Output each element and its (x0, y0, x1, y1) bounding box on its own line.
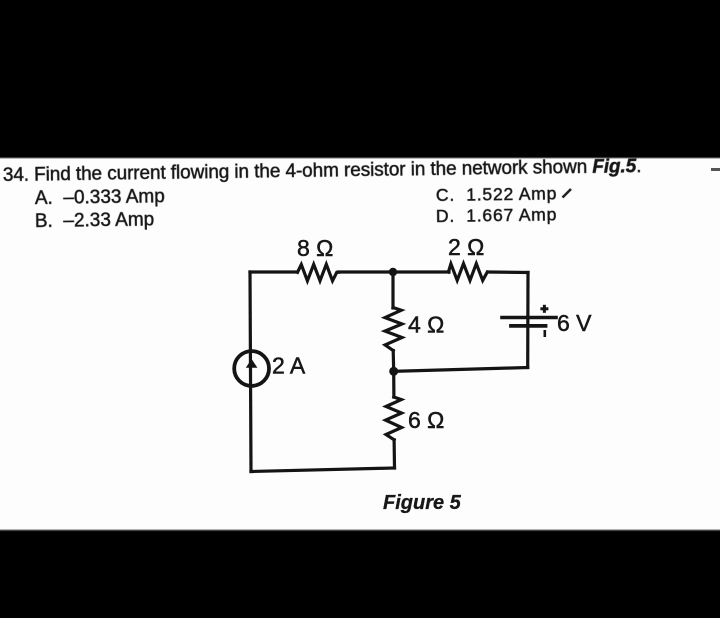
battery minus tick (543, 330, 546, 337)
svg-text:6 V: 6 V (557, 310, 592, 336)
svg-text:2 Ω: 2 Ω (448, 234, 484, 260)
resistor R=6ohm zigzag (386, 397, 402, 440)
wire top-right segment (488, 270, 528, 274)
wire middle vertical bottom segment (393, 440, 397, 468)
stray mark right edge (711, 168, 720, 171)
wire bottom segment (251, 468, 395, 472)
bottom black scan bar (0, 529, 720, 618)
wire top-left segment (250, 270, 297, 273)
option C (436, 185, 557, 204)
resistor R=4ohm zigzag (385, 308, 402, 351)
top black scan bar (0, 0, 720, 159)
current source I=2A circle (234, 351, 269, 386)
wire middle vertical below node (392, 371, 395, 397)
option A (35, 187, 165, 208)
battery plus sign (540, 305, 548, 313)
option D (436, 206, 557, 225)
node top junction dot (389, 268, 397, 276)
resistor R=2ohm zigzag (448, 264, 487, 281)
svg-text:4 Ω: 4 Ω (408, 312, 444, 338)
wire middle vertical between 4ohm and node (392, 351, 396, 372)
battery V=6V short plate (-) (511, 324, 546, 328)
battery V=6V long plate (+) (502, 316, 556, 320)
wire right vertical through battery (526, 273, 529, 368)
option B (35, 210, 155, 231)
wire middle horizontal segment (394, 368, 528, 372)
resistor R=8ohm zigzag (298, 264, 339, 281)
wire top-middle segment (339, 270, 450, 273)
current source arrow head (246, 359, 258, 368)
svg-text:6 Ω: 6 Ω (408, 407, 444, 433)
svg-text:8 Ω: 8 Ω (297, 235, 333, 261)
question line 1 (3, 157, 642, 185)
wire middle vertical upper segment (391, 272, 394, 308)
svg-text:2 A: 2 A (272, 353, 306, 379)
node middle junction dot (389, 367, 398, 376)
wire left vertical (250, 272, 251, 472)
svg-text:Figure 5: Figure 5 (383, 492, 462, 514)
check tick after option C (560, 185, 578, 201)
